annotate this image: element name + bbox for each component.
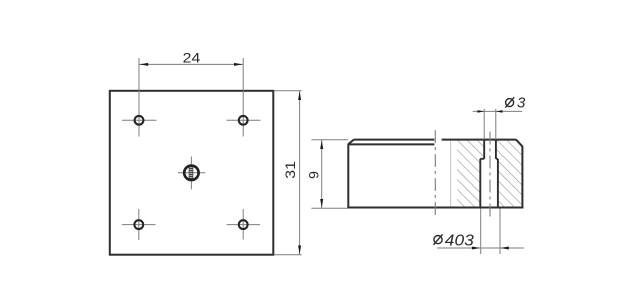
dimension 9 arrow bottom	[320, 199, 323, 208]
dimension 9 arrow top	[320, 140, 323, 149]
svg-text:9: 9	[305, 171, 321, 179]
dimension 24 arrow left	[139, 63, 148, 66]
top edge right segment	[442, 139, 517, 141]
dimension 31 line	[299, 91, 301, 255]
dimension Ø403 arrow right (outside pointing left)	[500, 247, 508, 250]
side view outline	[347, 140, 523, 209]
top edge left segment	[354, 139, 435, 141]
hole top-right crosshair	[227, 58, 261, 137]
plate outline	[110, 91, 273, 255]
centre hole crosshair	[178, 157, 205, 190]
dimension Ø3 arrow left (outside pointing right)	[478, 110, 485, 113]
chamfer top-right	[516, 140, 522, 147]
dimension Ø403 extension lines	[480, 209, 482, 255]
dimension 31 arrow top	[298, 91, 301, 100]
dimension Ø3 extension lines	[483, 109, 485, 140]
svg-text:3: 3	[517, 94, 526, 111]
hole top-left	[135, 116, 144, 125]
dimension 31 arrow bottom	[298, 246, 301, 255]
hole bottom-left	[134, 220, 143, 229]
svg-text:24: 24	[183, 50, 201, 66]
section break faint line	[450, 141, 452, 207]
dimension 9 extension top	[311, 139, 348, 141]
hatch region of section	[457, 140, 521, 207]
centre hole ring	[184, 166, 198, 180]
svg-text:31: 31	[282, 161, 298, 179]
svg-text:403: 403	[445, 233, 474, 250]
centreline of plate (dash-dot)	[434, 130, 436, 218]
dimension 31 extension bottom	[275, 254, 302, 256]
centreline of hole (dash-dot)	[489, 132, 491, 217]
hole top-right	[239, 116, 248, 125]
dimension 9 line	[321, 140, 323, 208]
right edge	[521, 146, 523, 209]
left edge	[347, 144, 349, 209]
chamfer top-left	[348, 140, 354, 145]
dimension 31 extension top	[275, 90, 302, 92]
hole bottom-right crosshair	[227, 209, 261, 240]
hole bottom-left crosshair	[122, 209, 156, 240]
centre hole slot band	[189, 166, 193, 181]
hole top-left crosshair	[122, 58, 157, 137]
bottom edge	[347, 207, 523, 209]
dimension Ø403 diameter symbol	[434, 234, 443, 245]
dimension 24 line	[139, 63, 243, 65]
dimension Ø3 diameter symbol	[505, 97, 514, 107]
dimension Ø403 line	[437, 247, 524, 249]
dimension Ø403 arrow left (outside pointing right)	[472, 247, 480, 250]
counterbored hole profile	[480, 140, 498, 207]
chamfer inner edge line	[349, 143, 435, 145]
dimension 9 extension bottom	[311, 207, 348, 209]
dimension Ø3 arrow right (outside pointing left)	[496, 110, 503, 113]
dimension 24 arrow right	[234, 63, 243, 66]
hole bottom-right	[239, 220, 248, 229]
dimension Ø3 line	[473, 110, 523, 112]
